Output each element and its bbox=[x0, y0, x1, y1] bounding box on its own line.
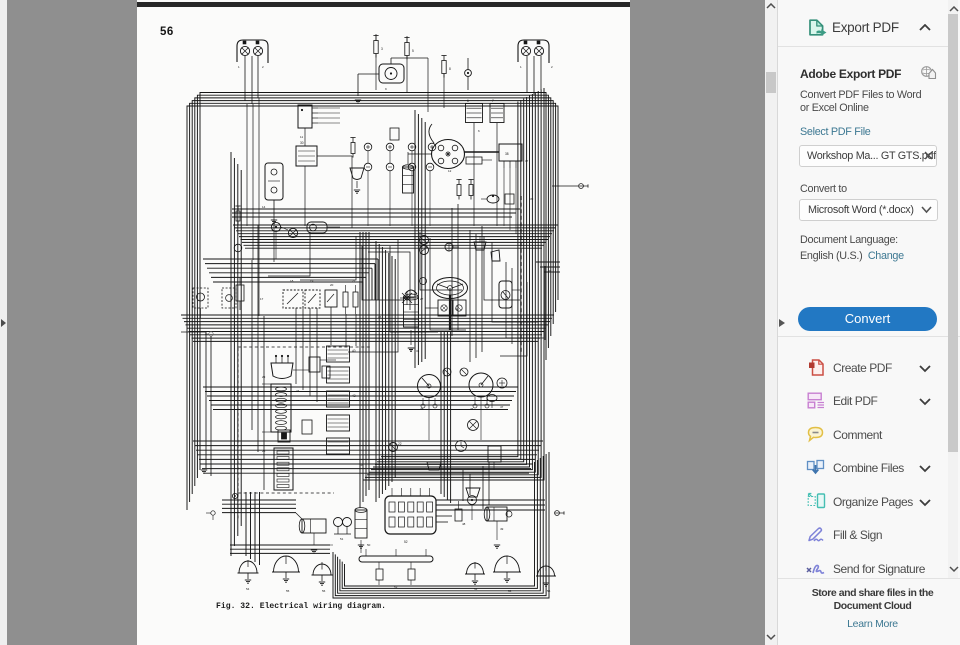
wire: short cross links bbox=[293, 300, 497, 553]
wire: gauge row drops bbox=[368, 151, 430, 226]
fuel tank sender bottom bbox=[427, 462, 441, 470]
wire bundle: mid bus M2 bbox=[203, 259, 560, 300]
svg-text:54: 54 bbox=[474, 587, 478, 591]
svg-text:18: 18 bbox=[290, 279, 294, 283]
flasher connector strip bbox=[385, 488, 436, 544]
relay stack K6 bbox=[327, 391, 356, 407]
ammeter gauge bbox=[497, 378, 507, 388]
svg-text:38: 38 bbox=[505, 152, 509, 156]
svg-text:21: 21 bbox=[352, 279, 356, 283]
wire bundle: right riser V4 bbox=[441, 332, 451, 503]
regulator R1 tall bbox=[265, 163, 283, 215]
svg-text:7: 7 bbox=[492, 99, 494, 103]
wire bundle: left riser + top bus + right outer drop bbox=[187, 93, 558, 511]
svg-text:27: 27 bbox=[420, 297, 424, 301]
wire bundle: mid bus M4 bbox=[203, 387, 518, 410]
svg-text:56: 56 bbox=[547, 589, 551, 593]
svg-text:32: 32 bbox=[455, 307, 459, 311]
starter coil cylinder bbox=[355, 508, 367, 538]
tools panel bbox=[777, 0, 960, 645]
fuse F5 centre bbox=[350, 138, 355, 158]
svg-text:39: 39 bbox=[530, 197, 534, 201]
connector C2 bbox=[466, 157, 492, 164]
svg-text:47: 47 bbox=[500, 405, 504, 409]
tachometer gauge bbox=[469, 373, 493, 408]
bolt terminal right upper bbox=[552, 184, 588, 189]
headlamp cluster right bbox=[518, 40, 549, 95]
thermo switch bbox=[505, 194, 514, 204]
fuse F2 top bbox=[404, 38, 414, 60]
washer cup bbox=[474, 236, 486, 250]
wire: right column feeds bbox=[474, 90, 545, 340]
fuses pair centre bbox=[456, 180, 473, 200]
svg-text:11: 11 bbox=[300, 135, 303, 139]
bolt terminal right lower bbox=[555, 511, 564, 516]
wire bundle: lower bus M5 bbox=[193, 441, 543, 473]
bolt terminal left lower bbox=[206, 511, 215, 520]
panel scrollbar bbox=[948, 0, 958, 578]
svg-text:9: 9 bbox=[385, 87, 387, 91]
oil lamp oval bbox=[307, 222, 340, 233]
svg-text:22: 22 bbox=[398, 442, 402, 446]
blower motor bbox=[484, 507, 512, 521]
svg-text:40: 40 bbox=[352, 349, 356, 353]
connector pins left of stack bbox=[302, 366, 330, 434]
svg-text:56: 56 bbox=[322, 589, 326, 593]
clock gauge bbox=[456, 441, 467, 452]
svg-text:33: 33 bbox=[548, 269, 552, 273]
document background bbox=[7, 0, 765, 645]
fuse box FB1 bbox=[262, 384, 291, 432]
relay stack K8 bbox=[327, 438, 350, 454]
Document Cloud footer bbox=[790, 587, 955, 613]
resistor R3 bbox=[353, 285, 358, 314]
tool row: Comment bbox=[806, 426, 825, 444]
svg-text:55: 55 bbox=[508, 589, 512, 593]
interior lamp switch dashed bbox=[193, 288, 208, 318]
tool row: Send for Signature bbox=[805, 560, 827, 577]
ignition coil B1 box bbox=[296, 141, 317, 166]
wiper park box bbox=[491, 250, 500, 261]
svg-text:24: 24 bbox=[296, 389, 300, 393]
wire bundle: lower right feeders bbox=[436, 462, 489, 522]
svg-text:53: 53 bbox=[394, 585, 398, 589]
svg-text:23: 23 bbox=[262, 375, 266, 379]
component number labels bbox=[238, 65, 553, 593]
svg-text:12: 12 bbox=[448, 169, 452, 173]
twin air horns bbox=[334, 518, 352, 535]
svg-text:31: 31 bbox=[416, 349, 420, 353]
svg-text:43: 43 bbox=[352, 394, 356, 398]
svg-text:1: 1 bbox=[238, 65, 240, 69]
fuel gauge bbox=[468, 420, 479, 431]
dynamo warning circles bbox=[271, 222, 297, 259]
wiring diagram figure bbox=[137, 0, 630, 645]
svg-text:37: 37 bbox=[525, 159, 529, 163]
steering wheel bbox=[433, 278, 468, 331]
hazard switch cross bbox=[400, 278, 427, 306]
flasher switch S3 bbox=[283, 290, 303, 308]
svg-text:5: 5 bbox=[412, 49, 414, 53]
svg-text:14: 14 bbox=[262, 205, 266, 209]
svg-text:51: 51 bbox=[340, 537, 344, 541]
horn relay circle bbox=[468, 496, 477, 505]
ignition key switch bbox=[499, 281, 520, 308]
wire bundle: bottom sweep to tail lamps bbox=[333, 452, 549, 598]
dashed boundary frame bbox=[232, 347, 372, 499]
warning lamp W2 bbox=[460, 368, 468, 376]
wire bundle: left margin risers bbox=[181, 332, 211, 476]
svg-text:45: 45 bbox=[420, 407, 424, 411]
fuse F1 top bbox=[373, 36, 383, 58]
condenser bbox=[455, 501, 462, 521]
connector block C1 bbox=[298, 105, 340, 128]
svg-text:44: 44 bbox=[360, 463, 364, 467]
oil switch bbox=[487, 395, 497, 409]
wire bundle: left lower feeders bbox=[246, 492, 260, 565]
tool row: Edit PDF bbox=[807, 392, 826, 409]
wire bundle: right main loom descending to lower bus bbox=[363, 88, 544, 480]
relay stack K7 bbox=[327, 415, 350, 431]
fuse box FB2 bbox=[274, 448, 293, 490]
scanned page bbox=[137, 0, 630, 645]
svg-text:19: 19 bbox=[310, 279, 314, 283]
tool row: Organize Pages bbox=[807, 492, 826, 510]
wire: column feeds mid-left bbox=[247, 98, 352, 316]
Export PDF header bbox=[807, 18, 828, 38]
tool row: Combine Files bbox=[806, 459, 826, 477]
wire bundle: mid bus M3 bbox=[181, 315, 554, 341]
flasher circles pair bbox=[420, 236, 460, 255]
washer pump cup bbox=[350, 168, 364, 193]
svg-text:49: 49 bbox=[500, 527, 504, 531]
oil gauge circle 22 bbox=[389, 442, 402, 452]
wire: horn feed drop bbox=[376, 34, 444, 112]
svg-text:6: 6 bbox=[467, 99, 469, 103]
distributor D1 bbox=[408, 124, 499, 169]
brake switch box bbox=[488, 446, 501, 470]
svg-text:17: 17 bbox=[260, 297, 264, 301]
tail lamp L2 bbox=[272, 556, 300, 582]
switch S2 dashed bbox=[222, 288, 236, 308]
gauge lamp circles row 2 bbox=[364, 163, 434, 171]
svg-text:48: 48 bbox=[462, 522, 466, 526]
wire bundle: right-mid risers bbox=[452, 204, 482, 362]
speedometer gauge bbox=[418, 375, 441, 409]
tool row: Fill &amp; Sign bbox=[807, 526, 827, 544]
Convert button bbox=[798, 307, 937, 331]
Adobe Export PDF section bbox=[800, 67, 901, 81]
wire bundle: left inner riser bbox=[231, 152, 241, 556]
svg-text:1: 1 bbox=[520, 65, 522, 69]
dip switch bbox=[466, 488, 480, 497]
warning lamp W1 bbox=[443, 368, 451, 376]
wire bundle: centre riser V1 bbox=[360, 232, 369, 508]
headlamp cluster left bbox=[237, 40, 268, 104]
wire bundle: low mid links bbox=[222, 500, 545, 553]
light switch S5 bbox=[325, 290, 337, 307]
tool row: Create PDF bbox=[808, 358, 826, 377]
svg-text:8: 8 bbox=[449, 67, 451, 71]
relay K3 hatched bbox=[490, 99, 504, 142]
svg-text:2: 2 bbox=[551, 65, 553, 69]
bolt terminal left margin bbox=[205, 332, 213, 336]
junction node A bbox=[465, 58, 472, 90]
relay stack K5 bbox=[327, 367, 350, 383]
wire bundle: riser V3 under distributor bbox=[415, 110, 425, 368]
svg-text:2: 2 bbox=[262, 65, 264, 69]
battery cylinder bbox=[296, 513, 326, 533]
wire bundle: inner left risers 2 bbox=[252, 225, 264, 490]
tail lamp R1 bbox=[465, 563, 485, 584]
fuel pump cylinder bbox=[404, 290, 419, 351]
svg-text:54: 54 bbox=[246, 587, 250, 591]
switch S1 small left bbox=[236, 278, 244, 310]
coil cylinder bbox=[403, 152, 414, 193]
wire bundle: mid bus M1 bbox=[233, 225, 558, 248]
tail lamp R3 bbox=[536, 566, 556, 586]
wire knot segments centre bbox=[268, 232, 544, 402]
gauge lamp circles row 1 bbox=[364, 143, 436, 151]
relay K2 hatched bbox=[466, 99, 483, 140]
svg-text:46: 46 bbox=[470, 407, 474, 411]
tail lamp L3 bbox=[312, 564, 333, 585]
sender unit bowl bbox=[271, 355, 293, 379]
wire bundle: centre riser V2 bbox=[376, 241, 395, 502]
connector block small below fusebox bbox=[278, 430, 290, 442]
relay stack K4 bbox=[327, 346, 356, 362]
small box near bowl bbox=[309, 357, 320, 372]
document scrollbar bbox=[765, 0, 777, 645]
licence plate lamp bar bbox=[359, 549, 433, 585]
svg-text:52: 52 bbox=[404, 540, 408, 544]
ignition starter block bbox=[425, 300, 466, 316]
svg-text:26: 26 bbox=[378, 315, 382, 319]
dashed earth line centre bbox=[238, 196, 521, 520]
ground symbols scattered bbox=[201, 100, 500, 553]
tail lamp R2 bbox=[493, 556, 521, 582]
small relay box K1 bbox=[390, 128, 399, 140]
left collapse strip bbox=[0, 0, 7, 645]
wiper switch S4 bbox=[305, 290, 320, 308]
figure caption bbox=[216, 602, 386, 611]
svg-text:6: 6 bbox=[478, 129, 480, 133]
svg-text:30: 30 bbox=[300, 141, 304, 145]
horn H1 bbox=[358, 58, 428, 96]
svg-text:25: 25 bbox=[262, 449, 266, 453]
oil pressure sender bbox=[481, 195, 499, 203]
svg-text:55: 55 bbox=[286, 589, 290, 593]
svg-text:20: 20 bbox=[330, 283, 334, 287]
resistor R2 bbox=[343, 285, 348, 314]
fuse F3 bbox=[441, 56, 451, 78]
wire bundle: upper link bus bbox=[232, 209, 520, 217]
svg-text:50: 50 bbox=[367, 543, 371, 547]
svg-text:3: 3 bbox=[381, 47, 383, 51]
fuse F6 small left bbox=[234, 206, 242, 262]
tail lamp L1 bbox=[238, 561, 259, 583]
voltage regulator box bbox=[499, 144, 522, 168]
wire: lamp feeds bottom left bbox=[248, 492, 546, 571]
